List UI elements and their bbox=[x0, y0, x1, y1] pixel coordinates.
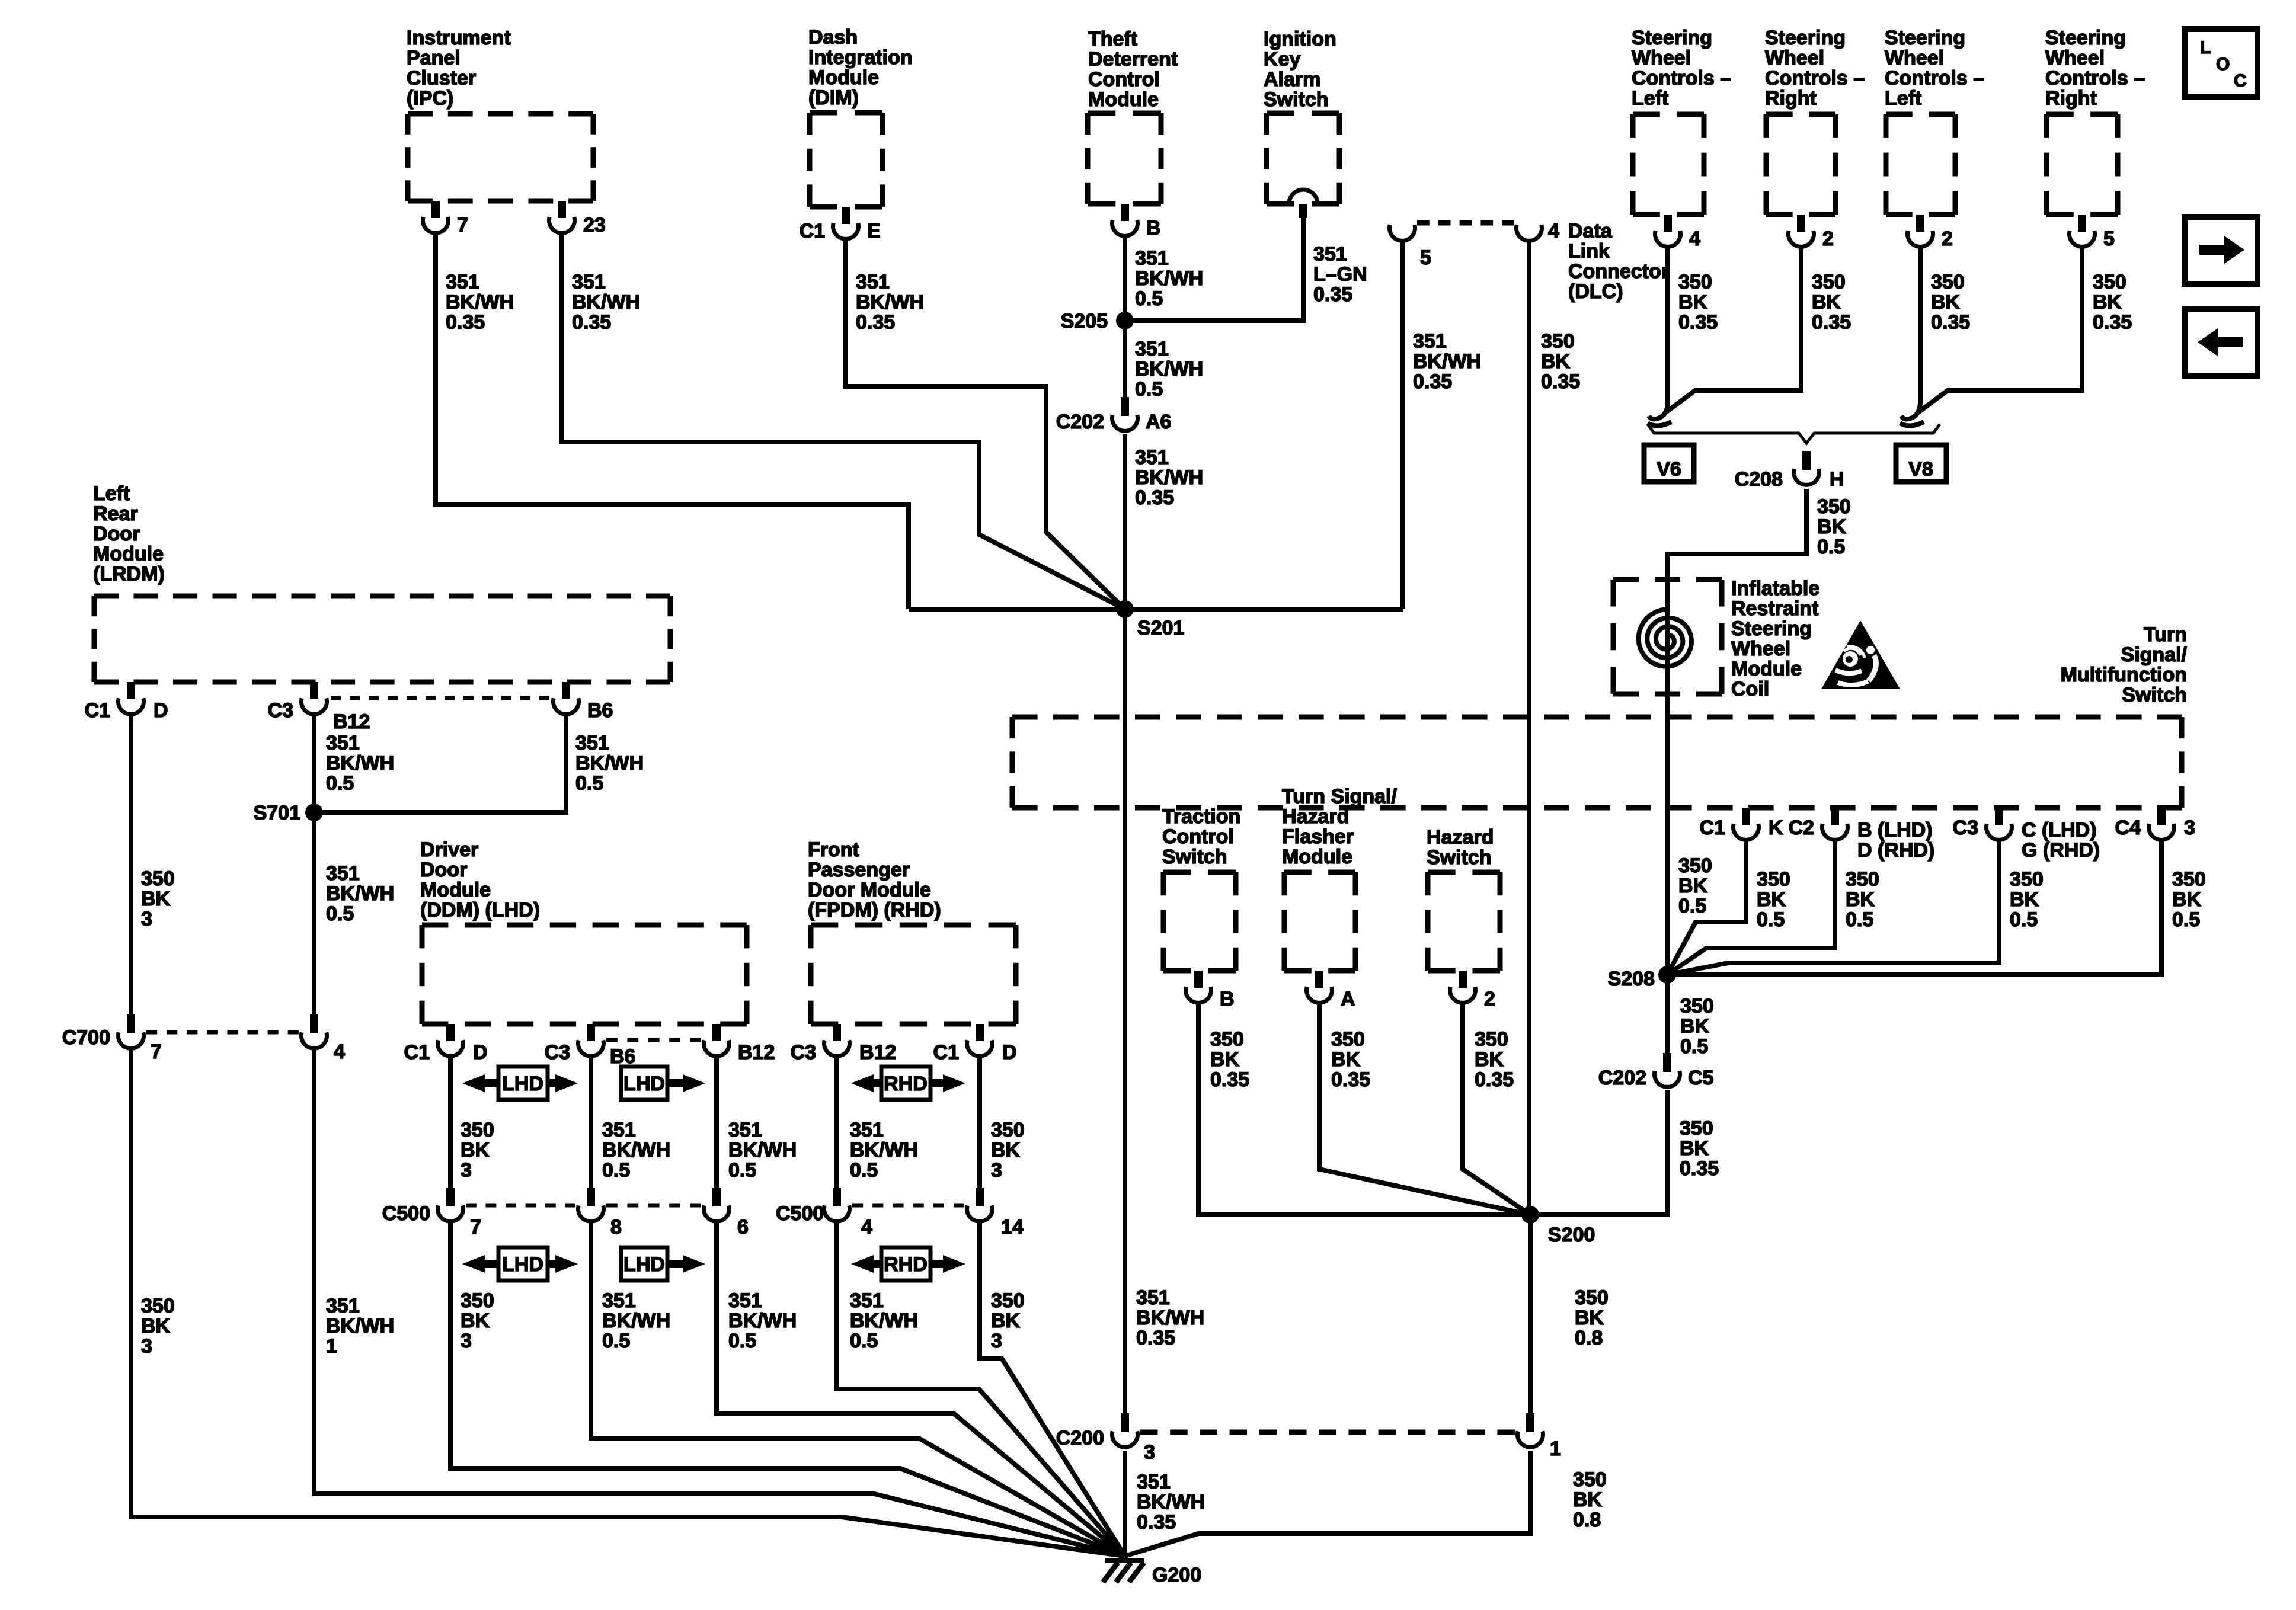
wire label 351 BK/WH 0.5 (theft B) bbox=[1135, 247, 1203, 310]
svg-text:Door Module: Door Module bbox=[808, 879, 931, 901]
svg-text:BK/WH: BK/WH bbox=[572, 291, 640, 313]
svg-text:D: D bbox=[1002, 1041, 1017, 1064]
svg-text:0.8: 0.8 bbox=[1575, 1327, 1603, 1349]
pin B12 of DDM bbox=[704, 1024, 775, 1064]
svg-text:0.35: 0.35 bbox=[1812, 311, 1851, 334]
svg-text:350: 350 bbox=[1846, 868, 1879, 891]
svg-text:0.35: 0.35 bbox=[1313, 283, 1352, 306]
svg-text:0.5: 0.5 bbox=[850, 1159, 878, 1182]
connector DLC bridge dashed bbox=[1417, 220, 1514, 226]
svg-text:Hazard: Hazard bbox=[1427, 826, 1494, 849]
svg-text:Restraint: Restraint bbox=[1731, 597, 1818, 620]
svg-text:0.5: 0.5 bbox=[1135, 287, 1163, 310]
svg-text:350: 350 bbox=[991, 1119, 1025, 1141]
svg-text:BK/WH: BK/WH bbox=[850, 1139, 918, 1161]
svg-text:BK: BK bbox=[1678, 875, 1708, 897]
svg-text:S205: S205 bbox=[1061, 310, 1108, 332]
svg-text:0.35: 0.35 bbox=[572, 311, 611, 334]
svg-text:Turn Signal/: Turn Signal/ bbox=[1282, 785, 1397, 808]
svg-text:350: 350 bbox=[1575, 1286, 1609, 1309]
wire theft B to S205 bbox=[1123, 236, 1127, 321]
svg-text:Cluster: Cluster bbox=[407, 67, 476, 89]
svg-text:23: 23 bbox=[583, 214, 606, 236]
svg-text:D: D bbox=[154, 699, 168, 722]
wire label 350 BK 3 (C500-7) bbox=[461, 1289, 494, 1352]
svg-text:C1: C1 bbox=[800, 220, 825, 242]
splice S205 bbox=[1061, 310, 1134, 332]
wire label 351 BK/WH 0.5 (LRDM C3) bbox=[326, 732, 394, 795]
wire label 350 BK 0.8 (S200-C200) bbox=[1575, 1286, 1609, 1349]
svg-text:3: 3 bbox=[1144, 1441, 1155, 1464]
ignition key alarm switch contact dome bbox=[1289, 190, 1318, 218]
svg-text:351: 351 bbox=[850, 1119, 884, 1141]
wire through coil to S208 bbox=[1665, 580, 1670, 975]
svg-text:351: 351 bbox=[1135, 247, 1169, 270]
brace joining crimps to C208 bbox=[1648, 424, 1940, 443]
svg-text:Steering: Steering bbox=[2045, 27, 2126, 49]
svg-text:350: 350 bbox=[141, 868, 175, 890]
wire label 350 BK 3 (C700-7) bbox=[141, 1295, 175, 1358]
svg-text:BK/WH: BK/WH bbox=[1135, 466, 1203, 489]
svg-text:S201: S201 bbox=[1137, 617, 1184, 639]
svg-text:B (LHD): B (LHD) bbox=[1857, 819, 1933, 841]
wire label 351 BK/WH 0.35 (DLC5) bbox=[1413, 330, 1481, 393]
connector bridge C3-B6 dashed bbox=[331, 696, 550, 700]
wire label 350 BK 0.35 (traction) bbox=[1210, 1028, 1249, 1091]
module LRDM box bbox=[94, 596, 670, 682]
LHD arrow tag row2 a bbox=[462, 1247, 578, 1281]
svg-text:B12: B12 bbox=[333, 710, 370, 733]
svg-text:Steering: Steering bbox=[1632, 27, 1712, 49]
svg-text:BK: BK bbox=[2010, 888, 2039, 911]
pin C3 C of multifunction switch bbox=[1953, 808, 2100, 862]
svg-text:0.5: 0.5 bbox=[1817, 536, 1845, 558]
svg-text:S208: S208 bbox=[1608, 968, 1655, 990]
connector C500 label right bbox=[776, 1202, 824, 1225]
wire C500-6 to G200 bbox=[717, 1222, 1125, 1556]
svg-text:BK: BK bbox=[1575, 1307, 1604, 1329]
svg-text:BK: BK bbox=[141, 888, 171, 910]
connector C200 pin 1 bbox=[1517, 1413, 1560, 1460]
svg-text:BK: BK bbox=[1812, 291, 1841, 313]
svg-text:7: 7 bbox=[151, 1041, 162, 1063]
svg-text:6: 6 bbox=[737, 1216, 749, 1238]
svg-text:BK/WH: BK/WH bbox=[1135, 358, 1203, 380]
svg-text:Switch: Switch bbox=[1264, 88, 1329, 111]
svg-text:BK/WH: BK/WH bbox=[575, 752, 644, 774]
svg-text:C1: C1 bbox=[933, 1041, 959, 1064]
svg-text:4: 4 bbox=[1689, 228, 1700, 250]
wire LRDM C3 to S701 bbox=[312, 715, 316, 812]
svg-text:351: 351 bbox=[1137, 1471, 1171, 1493]
svg-text:350: 350 bbox=[1573, 1468, 1607, 1491]
svg-text:BK/WH: BK/WH bbox=[446, 291, 514, 313]
svg-text:(DIM): (DIM) bbox=[808, 87, 859, 109]
svg-text:Steering: Steering bbox=[1885, 27, 1965, 49]
module DIM box bbox=[810, 113, 882, 207]
right arrow legend box bbox=[2185, 217, 2257, 284]
module Steering Wheel Controls Right label 4 bbox=[2045, 27, 2145, 110]
svg-text:0.5: 0.5 bbox=[1757, 908, 1785, 931]
svg-text:350: 350 bbox=[1541, 330, 1575, 353]
wire label 351 BK/WH 0.35 (DIM) bbox=[856, 271, 924, 334]
svg-text:0.35: 0.35 bbox=[1680, 1157, 1719, 1180]
svg-text:K: K bbox=[1769, 817, 1783, 839]
svg-text:Inflatable: Inflatable bbox=[1731, 577, 1819, 600]
svg-text:7: 7 bbox=[457, 214, 468, 236]
svg-text:V8: V8 bbox=[1908, 458, 1933, 481]
pin B6 of LRDM bbox=[554, 682, 613, 722]
svg-text:BK: BK bbox=[1331, 1048, 1361, 1071]
svg-text:351: 351 bbox=[1313, 243, 1347, 265]
svg-text:BK: BK bbox=[1678, 291, 1708, 313]
svg-text:Deterrent: Deterrent bbox=[1088, 48, 1178, 71]
wire ignition key alarm to S205 bbox=[1125, 218, 1303, 321]
svg-text:C: C bbox=[2234, 71, 2247, 91]
LHD arrow tag row2 b bbox=[621, 1247, 705, 1281]
svg-text:O: O bbox=[2216, 55, 2230, 74]
svg-text:0.5: 0.5 bbox=[1680, 1035, 1708, 1058]
svg-text:(LRDM): (LRDM) bbox=[93, 563, 165, 585]
svg-text:Module: Module bbox=[1088, 88, 1159, 111]
svg-text:Switch: Switch bbox=[1427, 846, 1492, 869]
wire label 350 BK 0.35 (SWC3) bbox=[1931, 271, 1970, 334]
svg-text:S701: S701 bbox=[254, 802, 300, 824]
module Ignition Key Alarm label bbox=[1264, 28, 1336, 111]
wire label 350 BK 3 (LRDM C1) bbox=[141, 868, 175, 930]
module Theft Deterrent label bbox=[1088, 28, 1178, 111]
splice S701 bbox=[254, 802, 323, 824]
svg-text:B: B bbox=[1220, 988, 1235, 1010]
connector bridge DDM C3-B12 dashed bbox=[606, 1038, 701, 1042]
splice S208 bbox=[1608, 966, 1676, 990]
pin B of theft module bbox=[1112, 204, 1161, 239]
svg-text:4: 4 bbox=[861, 1216, 872, 1238]
wire C202 A6 to S201 bbox=[1123, 434, 1127, 609]
connector C500 pin 6 bbox=[704, 1188, 749, 1238]
svg-text:351: 351 bbox=[1413, 330, 1447, 353]
svg-text:Module: Module bbox=[1282, 846, 1352, 868]
svg-text:C3: C3 bbox=[791, 1041, 816, 1064]
svg-text:350: 350 bbox=[1931, 271, 1965, 293]
wire label 351 BK/WH 1 (C700-4) bbox=[326, 1295, 394, 1358]
svg-text:V6: V6 bbox=[1657, 458, 1681, 481]
wire FPDM C1 D to C500-14 bbox=[977, 1057, 982, 1188]
svg-text:C202: C202 bbox=[1056, 411, 1104, 433]
svg-text:351: 351 bbox=[326, 732, 360, 754]
module Ignition Key Alarm box bbox=[1267, 113, 1339, 204]
module IPC label bbox=[407, 27, 511, 110]
svg-text:C200: C200 bbox=[1056, 1427, 1104, 1449]
svg-text:C5: C5 bbox=[1688, 1067, 1713, 1089]
LOC legend box bbox=[2185, 29, 2257, 97]
svg-text:0.35: 0.35 bbox=[1931, 311, 1970, 334]
wire hazard 2 to S200 bbox=[1463, 1004, 1530, 1215]
connector DLC pin 4 bbox=[1517, 220, 1560, 242]
wire label 350 BK 0.5 (C4) bbox=[2172, 868, 2206, 931]
svg-text:Alarm: Alarm bbox=[1264, 68, 1320, 91]
svg-text:4: 4 bbox=[334, 1041, 345, 1063]
svg-text:Module: Module bbox=[93, 543, 164, 565]
svg-text:Instrument: Instrument bbox=[407, 27, 511, 49]
wire MF K to S208 bbox=[1667, 840, 1746, 975]
svg-text:3: 3 bbox=[991, 1330, 1002, 1352]
svg-text:BK: BK bbox=[2093, 291, 2122, 313]
pin C1 K of multifunction switch bbox=[1700, 808, 1783, 840]
svg-text:5: 5 bbox=[1420, 247, 1431, 269]
wire label 351 BK/WH 0.35 (C200-3) bbox=[1137, 1471, 1205, 1534]
wire FPDM C3 B12 to C500-4 bbox=[834, 1057, 839, 1188]
svg-text:351: 351 bbox=[1136, 1286, 1170, 1309]
svg-text:0.5: 0.5 bbox=[1678, 895, 1706, 917]
svg-text:BK: BK bbox=[1680, 1015, 1710, 1038]
svg-text:Ignition: Ignition bbox=[1264, 28, 1336, 50]
svg-text:C3: C3 bbox=[545, 1041, 570, 1064]
svg-text:0.5: 0.5 bbox=[326, 902, 354, 925]
wire DLC pin4 to S200 bbox=[1527, 241, 1531, 1215]
svg-text:C700: C700 bbox=[62, 1026, 110, 1049]
module Theft Deterrent box bbox=[1088, 113, 1161, 204]
svg-text:0.35: 0.35 bbox=[1210, 1068, 1249, 1091]
coil module label bbox=[1731, 577, 1819, 700]
svg-text:BK: BK bbox=[1931, 291, 1961, 313]
svg-text:C202: C202 bbox=[1598, 1067, 1646, 1089]
svg-text:Dash: Dash bbox=[808, 26, 858, 49]
svg-text:350: 350 bbox=[1757, 868, 1790, 891]
ground G200 bbox=[1103, 1561, 1201, 1586]
pin 2 of steering wheel controls 2 bbox=[1789, 215, 1834, 250]
svg-text:Theft: Theft bbox=[1088, 28, 1137, 50]
LHD arrow tag row1 a bbox=[462, 1067, 578, 1100]
svg-text:Steering: Steering bbox=[1765, 27, 1846, 49]
svg-text:B12: B12 bbox=[859, 1041, 896, 1064]
wire C200 pin3 to G200 bbox=[1123, 1451, 1127, 1556]
svg-text:350: 350 bbox=[461, 1119, 494, 1141]
wire SWC3 pin2 down to crimp bbox=[1918, 247, 1923, 404]
wire label 350 BK 0.35 (SWC1) bbox=[1678, 271, 1718, 334]
module Steering Wheel Controls box 3 bbox=[1886, 114, 1955, 215]
svg-text:350: 350 bbox=[1678, 271, 1712, 293]
connector bridge C200 dashed bbox=[1140, 1430, 1515, 1435]
svg-text:0.5: 0.5 bbox=[2172, 908, 2200, 931]
wire label 351 BK/WH 0.5 (C500-4) bbox=[850, 1289, 918, 1352]
svg-text:350: 350 bbox=[1812, 271, 1846, 293]
coil module box bbox=[1613, 580, 1722, 694]
svg-text:Panel: Panel bbox=[407, 47, 461, 69]
svg-text:0.5: 0.5 bbox=[728, 1159, 756, 1182]
svg-text:LHD: LHD bbox=[502, 1073, 543, 1095]
svg-text:BK/WH: BK/WH bbox=[1413, 350, 1481, 373]
module Steering Wheel Controls box 4 bbox=[2046, 114, 2118, 215]
svg-text:Door: Door bbox=[420, 859, 467, 881]
module Traction Control Switch label bbox=[1162, 805, 1240, 868]
svg-text:350: 350 bbox=[2093, 271, 2126, 293]
svg-text:351: 351 bbox=[326, 1295, 360, 1317]
svg-text:BK/WH: BK/WH bbox=[326, 1315, 394, 1337]
svg-text:BK/WH: BK/WH bbox=[728, 1139, 797, 1161]
wire C500-4 to G200 bbox=[837, 1222, 1125, 1556]
svg-text:Multifunction: Multifunction bbox=[2061, 664, 2187, 686]
module Steering Wheel Controls box 1 bbox=[1633, 114, 1704, 215]
wire S201 bus to DLC pin5 bbox=[1400, 240, 1405, 609]
LHD arrow tag row1 b bbox=[621, 1067, 705, 1100]
svg-text:Switch: Switch bbox=[2122, 684, 2187, 706]
wire label 351 BK/WH 0.5 (LRDM B6) bbox=[575, 732, 644, 795]
svg-text:0.35: 0.35 bbox=[1413, 370, 1452, 393]
svg-text:Left: Left bbox=[1885, 87, 1921, 110]
wire label 351 BK/WH 0.5 (C500-8) bbox=[602, 1289, 670, 1352]
svg-text:0.35: 0.35 bbox=[446, 311, 485, 334]
wire DDM C3 to C500-8 bbox=[589, 1057, 593, 1188]
svg-text:0.35: 0.35 bbox=[1135, 486, 1174, 509]
svg-text:LHD: LHD bbox=[623, 1073, 665, 1095]
svg-text:0.5: 0.5 bbox=[602, 1159, 630, 1182]
pin C2 B of multifunction switch bbox=[1789, 808, 1935, 862]
svg-text:Coil: Coil bbox=[1731, 678, 1769, 700]
wire IPC pin7 to S201 bus bbox=[436, 233, 909, 609]
svg-text:350: 350 bbox=[1475, 1028, 1508, 1051]
svg-text:BK: BK bbox=[1210, 1048, 1240, 1071]
svg-text:LHD: LHD bbox=[502, 1253, 543, 1276]
svg-text:BK: BK bbox=[461, 1139, 490, 1161]
wire MF C3 to S208 bbox=[1667, 840, 1999, 975]
svg-text:BK: BK bbox=[2172, 888, 2202, 911]
svg-text:3: 3 bbox=[141, 1335, 152, 1358]
wire flasher A to S200 bbox=[1319, 1004, 1530, 1215]
connector bridge C500 7-8 dashed bbox=[466, 1204, 575, 1208]
svg-text:Controls –: Controls – bbox=[1765, 67, 1865, 89]
svg-text:351: 351 bbox=[1135, 446, 1169, 469]
svg-text:3: 3 bbox=[991, 1159, 1002, 1182]
svg-text:C500: C500 bbox=[776, 1202, 824, 1225]
connector C200 pin 3 bbox=[1056, 1413, 1155, 1464]
pin A of flasher module bbox=[1307, 971, 1355, 1010]
module DDM label bbox=[420, 838, 540, 921]
svg-text:BK/WH: BK/WH bbox=[1137, 1491, 1205, 1513]
connector DLC pin 5 bbox=[1390, 225, 1431, 269]
svg-text:7: 7 bbox=[470, 1216, 481, 1238]
svg-text:350: 350 bbox=[2010, 868, 2044, 891]
svg-text:1: 1 bbox=[326, 1335, 337, 1358]
splice S200 bbox=[1521, 1206, 1595, 1246]
wire S201 horizontal bus bbox=[909, 607, 1403, 612]
svg-text:0.8: 0.8 bbox=[1573, 1509, 1601, 1531]
pin 4 of steering wheel controls 1 bbox=[1655, 215, 1701, 250]
svg-text:0.35: 0.35 bbox=[1678, 311, 1718, 334]
wire label 351 BK/WH 0.35 (C202-S201) bbox=[1135, 446, 1203, 509]
wire SWC4 pin5 to crimp bbox=[1919, 247, 2082, 412]
wire SWC2 pin2 to crimp bbox=[1667, 247, 1801, 412]
pin 7 of IPC bbox=[423, 201, 468, 236]
wire DDM B12 to C500-6 bbox=[714, 1057, 719, 1188]
svg-text:350: 350 bbox=[1331, 1028, 1365, 1051]
wire LRDM C1 D to C700 bbox=[129, 715, 133, 1014]
svg-text:Steering: Steering bbox=[1731, 617, 1812, 640]
svg-text:BK: BK bbox=[1573, 1489, 1603, 1511]
svg-text:RHD: RHD bbox=[884, 1073, 928, 1095]
svg-text:Traction: Traction bbox=[1162, 805, 1240, 828]
module FPDM label bbox=[808, 838, 941, 921]
pin C4 3 of multifunction switch bbox=[2115, 808, 2195, 840]
svg-text:H: H bbox=[1830, 468, 1844, 491]
svg-text:(FPDM) (RHD): (FPDM) (RHD) bbox=[808, 899, 941, 921]
connector bridge C700 dashed bbox=[146, 1030, 299, 1035]
svg-text:(DLC): (DLC) bbox=[1568, 280, 1623, 303]
module DIM label bbox=[808, 26, 913, 109]
svg-text:Right: Right bbox=[2045, 87, 2097, 110]
pin C1 D of LRDM bbox=[85, 682, 168, 722]
svg-text:Wheel: Wheel bbox=[2045, 47, 2105, 69]
crimp splice left bbox=[1648, 402, 1671, 426]
svg-text:Hazard: Hazard bbox=[1282, 805, 1349, 828]
crimp splice right bbox=[1900, 402, 1924, 426]
wire label 350 BK 0.35 (DLC4) bbox=[1541, 330, 1580, 393]
svg-text:351: 351 bbox=[572, 271, 606, 293]
svg-text:350: 350 bbox=[1680, 995, 1714, 1017]
svg-text:0.5: 0.5 bbox=[1846, 908, 1873, 931]
svg-text:BK: BK bbox=[1757, 888, 1786, 911]
wire S200 to C200 pin1 bbox=[1528, 1215, 1533, 1413]
connector C500 pin 14 bbox=[967, 1188, 1024, 1238]
svg-text:0.35: 0.35 bbox=[1475, 1068, 1514, 1091]
splice S201 bbox=[1116, 600, 1184, 639]
wire label 350 BK 0.5 (K) bbox=[1757, 868, 1790, 931]
module IPC box bbox=[408, 114, 593, 201]
svg-text:Signal/: Signal/ bbox=[2121, 644, 2188, 666]
svg-text:BK: BK bbox=[1846, 888, 1875, 911]
svg-text:350: 350 bbox=[1680, 1117, 1713, 1140]
svg-text:Left: Left bbox=[1632, 87, 1668, 110]
wire label 351 BK/WH 0.5 (S205-C202) bbox=[1135, 338, 1203, 401]
svg-text:BK: BK bbox=[141, 1315, 171, 1337]
svg-text:351: 351 bbox=[575, 732, 609, 754]
wire label 350 BK 0.35 (SWC4) bbox=[2093, 271, 2132, 334]
svg-text:3: 3 bbox=[2184, 817, 2195, 839]
svg-text:BK/WH: BK/WH bbox=[1136, 1307, 1204, 1329]
wire S701 to C700 pin4 bbox=[312, 812, 316, 1014]
svg-text:351: 351 bbox=[728, 1289, 762, 1312]
left arrow legend box bbox=[2185, 309, 2257, 376]
wire C500-7 to G200 bbox=[450, 1222, 1125, 1556]
svg-text:C1: C1 bbox=[85, 699, 110, 722]
svg-text:Module: Module bbox=[420, 879, 491, 901]
pin C1 E of DIM bbox=[800, 207, 881, 242]
wire C700 pin4 to G200 bbox=[314, 1050, 1125, 1556]
svg-text:351: 351 bbox=[728, 1119, 762, 1141]
svg-text:BK: BK bbox=[1817, 516, 1847, 538]
wire DDM C1 D to C500-7 bbox=[448, 1057, 453, 1188]
wire S201 to C200 pin3 bbox=[1123, 609, 1127, 1413]
svg-text:BK: BK bbox=[991, 1310, 1021, 1332]
wire MF C4 to S208 bbox=[1667, 840, 2161, 975]
svg-text:5: 5 bbox=[2103, 228, 2115, 250]
svg-text:B: B bbox=[1146, 217, 1161, 239]
svg-text:0.5: 0.5 bbox=[326, 772, 354, 795]
wire label 350 BK 0.8 (C200-1) bbox=[1573, 1468, 1607, 1531]
svg-text:351: 351 bbox=[326, 862, 360, 885]
airbag warning triangle bbox=[1821, 620, 1900, 689]
wire S205 to C202 A6 bbox=[1123, 321, 1127, 397]
svg-text:351: 351 bbox=[856, 271, 890, 293]
svg-text:0.5: 0.5 bbox=[1135, 378, 1163, 401]
turn signal multifunction switch label bbox=[2061, 623, 2188, 706]
RHD arrow tag row1 bbox=[851, 1067, 965, 1100]
svg-text:C2: C2 bbox=[1789, 817, 1814, 839]
svg-text:Switch: Switch bbox=[1162, 846, 1227, 868]
module Steering Wheel Controls box 2 bbox=[1766, 114, 1835, 215]
svg-text:BK: BK bbox=[1475, 1048, 1504, 1071]
connector C700 pin 4 bbox=[301, 1014, 345, 1063]
